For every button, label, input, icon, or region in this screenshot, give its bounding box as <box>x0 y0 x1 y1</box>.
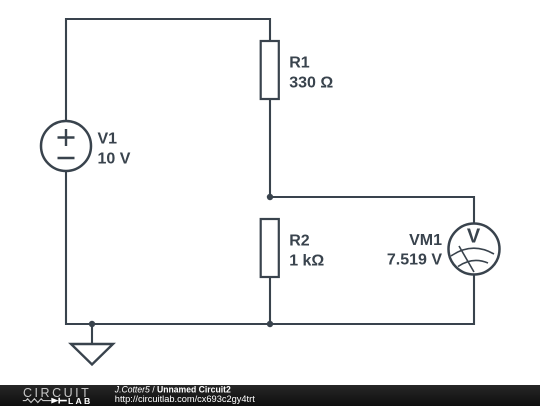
footer bar <box>0 385 540 406</box>
V1 minus sign <box>58 157 75 159</box>
wire right upper <box>473 196 475 223</box>
wire bottom <box>65 323 475 325</box>
voltage source V1 <box>41 121 91 171</box>
V1 plus sign <box>58 129 75 158</box>
node junction dot middle <box>267 194 273 200</box>
voltmeter VM1 <box>449 224 500 275</box>
logo resistor zigzag <box>23 398 52 402</box>
svg-text:7.519 V: 7.519 V <box>387 252 442 269</box>
ground stub wire <box>91 324 93 344</box>
wire left upper <box>65 18 67 121</box>
svg-text:LAB: LAB <box>68 396 92 406</box>
svg-text:330 Ω: 330 Ω <box>289 75 333 92</box>
svg-text:V: V <box>467 226 481 248</box>
node junction dot ground <box>89 321 95 327</box>
svg-text:R1: R1 <box>289 55 310 72</box>
svg-text:R2: R2 <box>289 233 310 250</box>
svg-text:10 V: 10 V <box>98 151 131 168</box>
VM1 meter lower arc <box>458 260 488 266</box>
wire R1 top stub <box>269 18 271 41</box>
logo diode arrow <box>51 397 58 403</box>
wire middle <box>270 196 475 198</box>
resistor R1 <box>261 41 279 99</box>
wire right lower <box>473 275 475 325</box>
wire R2 bottom stub <box>269 277 271 324</box>
logo diode bar <box>59 397 67 403</box>
wire R1 to node <box>269 99 271 197</box>
svg-text:http://circuitlab.com/cx693c2g: http://circuitlab.com/cx693c2gy4trt <box>115 393 255 404</box>
svg-text:1 kΩ: 1 kΩ <box>289 253 324 270</box>
wire top <box>66 18 270 20</box>
VM1 needle <box>459 246 474 272</box>
resistor R2 <box>261 219 279 277</box>
svg-text:VM1: VM1 <box>409 232 442 249</box>
svg-text:V1: V1 <box>98 131 118 148</box>
node junction dot bottom R2 <box>267 321 273 327</box>
wire left lower <box>65 171 67 325</box>
ground symbol <box>71 344 113 365</box>
VM1 meter upper arc <box>451 248 494 256</box>
